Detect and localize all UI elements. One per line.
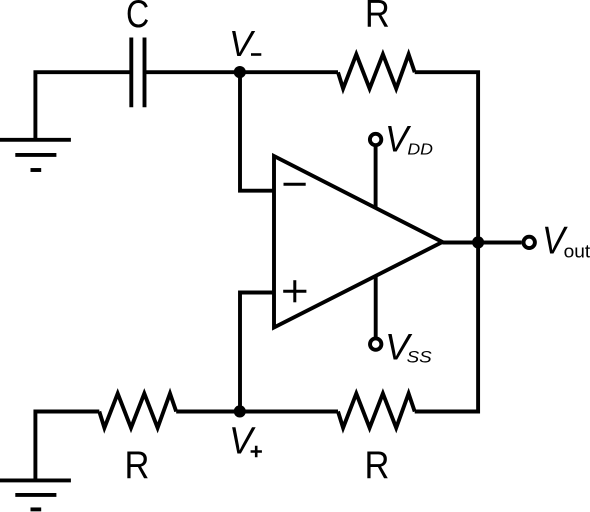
wire VDD to op-amp top [374, 145, 378, 208]
svg-text:R: R [365, 0, 390, 35]
wire bottom-left to ground G2 [35, 412, 99, 483]
node label V+ [229, 421, 262, 463]
svg-text:R: R [124, 444, 149, 487]
terminal Vout circle [524, 237, 535, 248]
terminal label VDD [385, 118, 433, 159]
op-amp U1 triangle [274, 156, 442, 328]
svg-text:DD: DD [407, 140, 433, 158]
wire resistor R2 to node V+ [176, 410, 240, 414]
op-amp minus symbol [284, 183, 306, 186]
wire op-amp bottom to VSS [374, 275, 378, 339]
resistor R1 (top) [338, 54, 415, 88]
wire capacitor to resistor R1 [145, 70, 339, 74]
wire top-left to ground G1 [35, 72, 131, 141]
resistor R2 (bottom left) [99, 394, 176, 428]
ground G1 [0, 140, 71, 170]
wire node V- to inverting input [240, 72, 274, 190]
wire node V+ to non-inverting input [240, 293, 274, 412]
resistor R3 (bottom right) [338, 394, 415, 428]
wire node V+ to resistor R3 [240, 410, 338, 414]
svg-text:C: C [126, 0, 149, 36]
terminal label Vout [542, 219, 590, 262]
terminal VSS circle [370, 338, 381, 349]
op-amp plus symbol [283, 280, 306, 302]
node V+ junction dot [234, 405, 246, 417]
capacitor C [131, 38, 144, 108]
svg-text:V: V [229, 23, 256, 64]
node V- junction dot [234, 66, 246, 78]
svg-text:out: out [564, 241, 590, 262]
node label V- [229, 23, 261, 64]
svg-text:SS: SS [407, 349, 432, 367]
ground G2 [0, 480, 71, 509]
terminal label VSS [385, 327, 432, 368]
wire op-amp output [442, 241, 521, 245]
terminal VDD circle [370, 134, 381, 145]
node output junction dot [472, 236, 484, 248]
wire right rail [415, 72, 478, 411]
svg-text:V: V [229, 421, 256, 463]
svg-text:R: R [365, 444, 390, 487]
